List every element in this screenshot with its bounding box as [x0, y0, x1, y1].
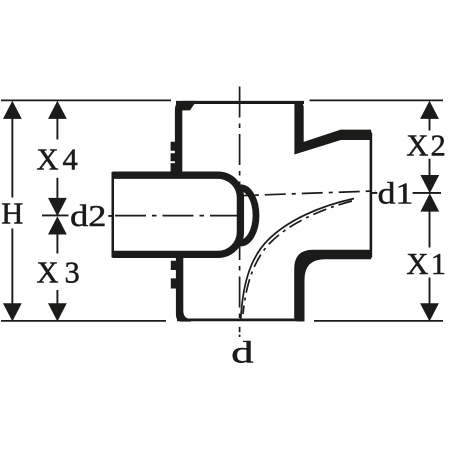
- svg-text:d2: d2: [70, 199, 106, 233]
- svg-text:d: d: [231, 336, 253, 370]
- svg-text:X 4: X 4: [37, 143, 78, 177]
- svg-text:d1: d1: [378, 177, 414, 211]
- svg-text:H: H: [1, 197, 23, 231]
- svg-text:X 2: X 2: [406, 128, 445, 162]
- svg-text:X 1: X 1: [406, 247, 446, 281]
- svg-text:X 3: X 3: [37, 256, 80, 290]
